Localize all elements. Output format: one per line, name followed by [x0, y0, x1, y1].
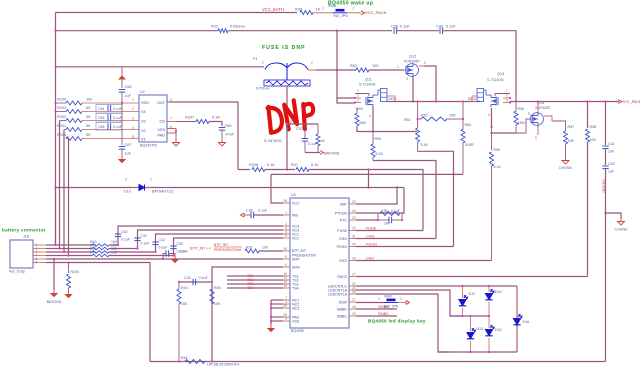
svg-text:D15: D15 [495, 328, 502, 332]
wire fuse center down [286, 86, 288, 124]
svg-text:R201: R201 [57, 124, 66, 128]
capacitor C37 [304, 124, 306, 138]
svg-text:C33: C33 [177, 242, 183, 246]
wire fuse gate down to R206 line [286, 124, 288, 170]
wire CHG net R50 bottom [373, 161, 436, 239]
svg-text:C67: C67 [125, 143, 132, 147]
svg-text:100: 100 [372, 64, 378, 68]
flag at DISP switch [406, 301, 409, 305]
svg-text:SRP: SRP [292, 257, 300, 261]
RC cluster at PTC [356, 219, 378, 221]
svg-text:PTC: PTC [340, 218, 348, 222]
C34 row [179, 281, 212, 283]
wire VCC feed [271, 174, 283, 203]
svg-text:5: 5 [285, 234, 287, 238]
svg-text:VDD: VDD [141, 101, 149, 105]
svg-text:battery connector: battery connector [2, 228, 46, 233]
svg-text:10K: 10K [590, 138, 597, 142]
svg-text:2: 2 [125, 178, 127, 182]
svg-text:1K: 1K [316, 8, 321, 12]
sense resistor rail [150, 361, 606, 363]
svg-text:VCC_BATH: VCC_BATH [262, 7, 284, 12]
svg-text:5.1K: 5.1K [421, 143, 429, 147]
wire to CHGND symbol [604, 212, 606, 214]
svg-text:3: 3 [506, 99, 508, 103]
svg-text:7: 7 [170, 117, 172, 121]
svg-text:1uF: 1uF [125, 94, 132, 98]
svg-text:C31: C31 [141, 234, 147, 238]
wire LEDCNTLC [356, 285, 517, 287]
svg-text:4: 4 [488, 113, 490, 117]
svg-text:BQ4050 led display key: BQ4050 led display key [368, 319, 426, 324]
wire SMBC stub [356, 315, 397, 317]
VCC_PACK flag right [618, 100, 621, 104]
svg-text:2N7002E: 2N7002E [535, 106, 551, 110]
connector row wires [46, 244, 92, 246]
svg-text:24: 24 [352, 209, 356, 213]
svg-text:R203: R203 [57, 106, 66, 110]
LED matrix right column [516, 286, 518, 352]
wire DSG pin [356, 260, 492, 262]
svg-text:0.1uF: 0.1uF [400, 25, 410, 29]
svg-text:CD: CD [160, 120, 166, 124]
wire second rail with R22 [56, 30, 219, 32]
svg-text:BATGND: BATGND [324, 152, 340, 156]
wire Q13 gate row to R56 [492, 132, 517, 134]
svg-text:3: 3 [132, 117, 134, 121]
svg-text:C66: C66 [98, 125, 104, 129]
svg-text:510R: 510R [465, 143, 474, 147]
svg-text:0.1uF: 0.1uF [446, 25, 456, 29]
capacitor C36 at PBI [241, 213, 245, 217]
svg-text:R206: R206 [249, 163, 258, 167]
svg-text:C41: C41 [608, 142, 615, 146]
svg-text:R53: R53 [421, 114, 428, 118]
svg-text:15: 15 [283, 247, 287, 251]
svg-text:S-1N74DH,: S-1N74DH, [264, 139, 282, 143]
svg-text:D16: D16 [523, 320, 530, 324]
wire pin6 row to sense rail [46, 263, 150, 362]
VCC_PACK rail [510, 101, 619, 103]
wire BAT pin to sense line [356, 188, 397, 205]
svg-text:R54: R54 [465, 123, 472, 127]
svg-text:FUSE: FUSE [337, 229, 347, 233]
svg-text:2: 2 [311, 61, 313, 65]
VC1 filter cap C33 [174, 238, 284, 256]
svg-text:VCC_PACK: VCC_PACK [365, 10, 387, 15]
svg-text:BQ294702: BQ294702 [140, 144, 157, 148]
svg-text:10R: 10R [449, 114, 456, 118]
svg-text:SW_JPN: SW_JPN [384, 305, 399, 309]
svg-text:10K: 10K [214, 302, 221, 306]
svg-text:S-7114DN: S-7114DN [487, 78, 504, 82]
svg-text:R22: R22 [211, 25, 218, 29]
ground U7 VSS [173, 140, 180, 146]
cap bus junction dots [117, 244, 119, 246]
svg-text:R47: R47 [291, 163, 298, 167]
svg-text:V4: V4 [141, 110, 146, 114]
wire Q12 drain right down to rail [419, 65, 424, 67]
svg-text:R202: R202 [57, 115, 66, 119]
svg-text:R57: R57 [568, 125, 575, 129]
svg-text:23: 23 [352, 216, 356, 220]
svg-text:32: 32 [352, 200, 356, 204]
svg-text:CHGND: CHGND [602, 179, 606, 193]
mid rail Q11-Q13 [435, 100, 437, 102]
svg-text:1K: 1K [321, 139, 326, 143]
capacitor C35a [389, 217, 392, 223]
svg-text:BTP_INT <<: BTP_INT << [190, 247, 212, 251]
svg-text:FUSE IS DNP: FUSE IS DNP [262, 45, 306, 51]
svg-text:SW9: SW9 [384, 295, 392, 299]
wire Q11 to mid rail [387, 101, 480, 103]
svg-text:PCHG: PCHG [337, 245, 348, 249]
wire BATSENT line [56, 187, 405, 189]
svg-text:C36: C36 [246, 209, 253, 213]
svg-text:2: 2 [424, 61, 426, 65]
capacitor C42 [605, 149, 607, 165]
wire PACK pin long [356, 276, 588, 278]
wire LEDCNTLA [356, 294, 449, 352]
svg-text:0.1uF: 0.1uF [113, 125, 122, 129]
resistor R207 [167, 121, 176, 123]
wire cell bus 3 [63, 130, 65, 253]
svg-text:43M: 43M [518, 121, 525, 125]
svg-text:PRES\SHUTDN#: PRES\SHUTDN# [214, 248, 241, 252]
svg-text:.47uF: .47uF [225, 133, 235, 137]
resistor R36 1M [380, 212, 400, 216]
wire pin5 row to SRP net [46, 258, 283, 260]
svg-text:C40: C40 [436, 25, 443, 29]
ground CHGND right [618, 219, 625, 225]
svg-text:BTP_INT: BTP_INT [214, 243, 229, 247]
svg-text:VCC: VCC [292, 201, 300, 205]
svg-text:0.1uF: 0.1uF [141, 242, 150, 246]
ground at VSS [268, 325, 274, 332]
PAD VSS tie [271, 316, 283, 318]
svg-text:2: 2 [132, 107, 134, 111]
svg-text:R45: R45 [214, 286, 221, 290]
svg-text:2: 2 [400, 297, 402, 301]
fuse element box [264, 80, 310, 86]
ground arrow small SRP [172, 256, 178, 263]
svg-text:C68: C68 [125, 85, 132, 89]
svg-text:31: 31 [352, 235, 356, 239]
svg-text:1: 1 [285, 211, 287, 215]
svg-text:1: 1 [150, 178, 152, 182]
svg-text:5.1K: 5.1K [311, 163, 319, 167]
svg-text:R200: R200 [71, 270, 80, 274]
BATGND flag mid [320, 151, 323, 155]
svg-text:VCC_PACK: VCC_PACK [622, 100, 640, 104]
wire CHG pin [356, 238, 436, 240]
svg-text:100: 100 [86, 98, 92, 102]
wire to BATGND flag [305, 152, 320, 154]
svg-text:0.1uF: 0.1uF [159, 246, 168, 250]
wire Q14 drain up to rail [537, 102, 539, 114]
wire vertical from R22 rail to Q11 gate [337, 31, 355, 103]
wire Q14 source to R57 [537, 125, 539, 135]
svg-text:30: 30 [352, 243, 356, 247]
ground under R200 [66, 291, 72, 298]
svg-text:100: 100 [111, 251, 117, 255]
svg-text:BQ4050 wake up: BQ4050 wake up [328, 1, 373, 7]
svg-text:C65: C65 [98, 116, 104, 120]
LED D13 [470, 316, 472, 331]
svg-text:100: 100 [262, 246, 268, 250]
ground BATGND arrow [51, 290, 57, 297]
power flag VCC_PACK top [361, 11, 364, 15]
wire Q14 gate from R56 node [516, 119, 531, 133]
wire down to BATGND [53, 259, 55, 290]
wire Q12 source down [412, 76, 414, 102]
svg-text:C34: C34 [184, 276, 191, 280]
svg-text:5.1K: 5.1K [494, 165, 502, 169]
svg-text:1: 1 [322, 7, 324, 11]
wire R49 row to R51 top [373, 131, 417, 133]
svg-text:1: 1 [262, 61, 264, 65]
svg-text:DSG: DSG [339, 259, 347, 263]
svg-text:26: 26 [283, 199, 287, 203]
svg-text:BATSAHT1Q: BATSAHT1Q [152, 190, 173, 194]
LED mid rail [450, 315, 489, 317]
wire fuse out [308, 69, 318, 71]
svg-text:V2: V2 [141, 129, 146, 133]
svg-text:DISP: DISP [339, 300, 348, 304]
svg-text:U2: U2 [291, 193, 296, 197]
capacitor C65 [96, 114, 122, 122]
wire cell bus 2 [59, 121, 61, 249]
svg-text:0.1uF: 0.1uF [258, 209, 268, 213]
svg-text:2: 2 [353, 7, 355, 11]
svg-text:OUT: OUT [157, 101, 166, 105]
svg-text:PBI: PBI [292, 213, 298, 217]
svg-text:5: 5 [528, 112, 530, 116]
svg-text:R58: R58 [590, 125, 597, 129]
svg-text:R50: R50 [375, 137, 382, 141]
svg-text:1uF: 1uF [608, 170, 615, 174]
svg-text:5K: 5K [86, 133, 91, 137]
svg-text:U7: U7 [140, 90, 145, 94]
svg-text:PACK: PACK [337, 275, 347, 279]
LED D14 [488, 286, 490, 292]
svg-text:5.1K: 5.1K [267, 163, 275, 167]
svg-text:5.1R: 5.1R [212, 116, 220, 120]
wire PCHG pin [356, 246, 454, 248]
svg-text:CHG: CHG [339, 237, 347, 241]
red DNP stamp [267, 98, 316, 134]
ground below C67 [121, 149, 123, 156]
svg-text:C64: C64 [98, 107, 104, 111]
svg-text:C30: C30 [121, 230, 127, 234]
svg-text:0.1uF: 0.1uF [113, 107, 122, 111]
svg-text:3: 3 [357, 99, 359, 103]
svg-text:0.1uF: 0.1uF [179, 250, 188, 254]
svg-text:VC1: VC1 [292, 236, 299, 240]
svg-text:NC3: NC3 [292, 306, 299, 310]
svg-text:Q12: Q12 [409, 55, 416, 59]
svg-text:C69: C69 [225, 124, 232, 128]
svg-text:J18: J18 [23, 235, 29, 239]
resistor R55 [491, 127, 493, 150]
wire SMBD stub [356, 308, 397, 310]
wire R206 R47 line [238, 169, 250, 171]
svg-text:FDN306P: FDN306P [404, 60, 420, 64]
capacitor C66 [96, 123, 122, 131]
svg-text:SRN: SRN [292, 265, 300, 269]
wire SRN to R45 column [212, 267, 283, 362]
svg-text:2: 2 [357, 94, 359, 98]
svg-text:SMBD: SMBD [337, 307, 348, 311]
wire VCC_BATH top rail [56, 12, 298, 14]
svg-text:4x2_S10p: 4x2_S10p [9, 270, 25, 274]
svg-text:1uF: 1uF [608, 150, 615, 154]
svg-text:1M: 1M [384, 222, 389, 226]
wire U7 OUT to R206 node [167, 102, 238, 170]
svg-text:VSS: VSS [292, 319, 300, 323]
svg-text:LRCSB-2512R001F4: LRCSB-2512R001F4 [207, 363, 239, 367]
svg-text:SMBC: SMBC [337, 314, 348, 318]
switch SW9 display [356, 302, 384, 304]
svg-text:R55: R55 [494, 148, 501, 152]
capacitor C64 [96, 105, 122, 113]
U7 VSS PAD stubs to ground [167, 129, 176, 134]
svg-text:5K: 5K [86, 124, 91, 128]
CHGND net vertical right side [605, 169, 607, 362]
svg-text:0.05ohm: 0.05ohm [230, 25, 245, 29]
svg-text:PTCEN: PTCEN [335, 211, 348, 215]
svg-text:C32: C32 [159, 238, 165, 242]
NC pins tie [271, 299, 283, 301]
svg-text:C42: C42 [608, 162, 615, 166]
svg-text:TS4: TS4 [292, 286, 299, 290]
svg-text:R26: R26 [246, 246, 252, 250]
resistor R58 [587, 102, 589, 129]
wire cell bus 4 [68, 139, 70, 256]
LED D16 [516, 286, 518, 317]
wire LEDCNTLB [356, 290, 463, 316]
svg-text:1: 1 [506, 89, 508, 93]
svg-text:5: 5 [535, 136, 537, 140]
svg-text:25: 25 [352, 227, 356, 231]
wire PTCEN to sense line corner [356, 188, 404, 214]
Q11 pin stubs [373, 90, 381, 95]
svg-text:1uF: 1uF [125, 152, 132, 156]
svg-text:C37: C37 [296, 127, 303, 131]
power arrow to C68 [119, 76, 125, 83]
svg-text:1: 1 [357, 89, 359, 93]
wire fuse gate node [287, 123, 318, 125]
wire fuse rail tap down [121, 67, 123, 76]
wire R58 down to PACK line [587, 142, 589, 277]
svg-text:1: 1 [132, 98, 134, 102]
svg-text:4: 4 [369, 114, 371, 118]
wire between C38 C40 [397, 30, 439, 32]
svg-text:Q13: Q13 [497, 72, 504, 76]
svg-text:LEDCNTLA: LEDCNTLA [328, 292, 347, 296]
svg-text:S/TDxxx: S/TDxxx [256, 87, 270, 91]
svg-text:D13: D13 [477, 327, 484, 331]
svg-text:VSS: VSS [157, 128, 165, 132]
node top-left corner [55, 13, 57, 246]
svg-text:1: 1 [378, 297, 380, 301]
VC3 filter cap C31 [138, 230, 284, 249]
wire fuse node to R52 [337, 69, 356, 71]
ground below C69 [219, 140, 226, 146]
svg-text:Q11: Q11 [365, 78, 372, 82]
svg-text:D12: D12 [469, 292, 476, 296]
svg-text:D10: D10 [124, 190, 131, 194]
svg-text:BQ4050: BQ4050 [291, 329, 304, 333]
svg-text:CHGND: CHGND [614, 228, 628, 232]
LED D12 [462, 286, 464, 298]
svg-text:BATGND: BATGND [47, 300, 62, 304]
svg-text:2: 2 [506, 94, 508, 98]
svg-text:CHGND: CHGND [559, 166, 573, 170]
wire C40 to right corner down to VCC_PACK rail [443, 31, 516, 102]
svg-text:R207: R207 [185, 116, 194, 120]
svg-text:R204: R204 [57, 133, 66, 137]
svg-text:R52: R52 [350, 64, 357, 68]
svg-text:1: 1 [397, 65, 399, 69]
svg-text:S-7114DN: S-7114DN [359, 83, 376, 87]
svg-text:0.1uF: 0.1uF [113, 116, 122, 120]
svg-text:3: 3 [406, 77, 408, 81]
VC4 filter cap C30 [118, 226, 283, 245]
svg-text:43M: 43M [359, 121, 366, 125]
wire R51 bottom to PCHG drop [418, 151, 454, 246]
svg-text:V3: V3 [141, 120, 146, 124]
svg-text:5K: 5K [86, 106, 91, 110]
svg-text:0.1uF: 0.1uF [199, 276, 209, 280]
wire fuse feed rail [56, 66, 265, 68]
svg-text:PAD: PAD [157, 134, 165, 138]
svg-text:D14: D14 [495, 290, 502, 294]
resistor R200 [68, 263, 70, 274]
svg-text:10K: 10K [181, 302, 188, 306]
svg-text:TS4: TS4 [247, 286, 253, 290]
svg-text:5.1K: 5.1K [376, 152, 384, 156]
resistor R39 1K [317, 124, 319, 134]
LED D15 [488, 316, 490, 328]
capacitor C67 [121, 103, 123, 145]
LED bottom rail [438, 351, 517, 353]
svg-text:BAT: BAT [340, 202, 348, 206]
svg-text:R44: R44 [181, 286, 188, 290]
svg-text:F1: F1 [253, 57, 257, 61]
capacitor C41 [605, 102, 607, 146]
wire FUSE pin to gate network [356, 230, 423, 232]
wire R207 to C69 [209, 122, 222, 127]
ground CHGND under R57 [562, 158, 569, 164]
TS red labels [227, 275, 283, 277]
svg-text:V1: V1 [141, 138, 146, 142]
wire branch down to BATSENT line [368, 170, 370, 188]
svg-text:SW_JPN: SW_JPN [333, 14, 348, 18]
svg-text:R51: R51 [404, 118, 411, 122]
svg-text:5K: 5K [86, 115, 91, 119]
Q13 pin stubs [484, 90, 492, 95]
wire VCC line to R54 bottom [271, 173, 463, 175]
svg-text:R205: R205 [57, 98, 66, 102]
svg-text:0.1uF: 0.1uF [121, 238, 130, 242]
svg-text:R56: R56 [518, 107, 525, 111]
VC2 filter cap C32 [156, 234, 284, 252]
wire R47 to FUSE corner [309, 170, 423, 231]
svg-text:10K: 10K [568, 139, 575, 143]
